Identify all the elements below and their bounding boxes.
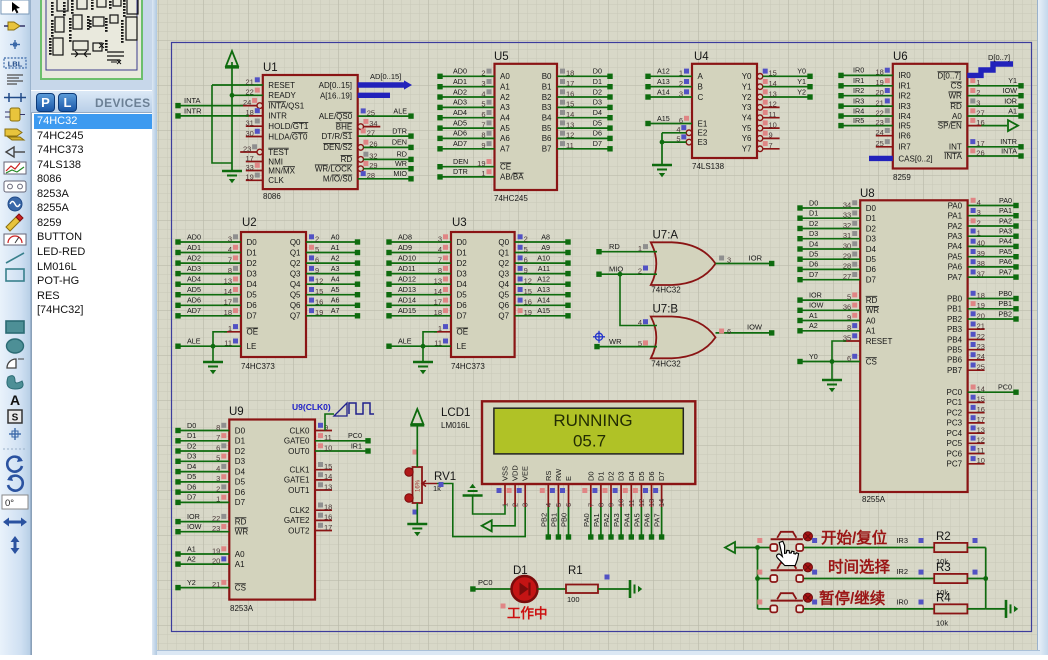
- svg-text:4: 4: [481, 89, 485, 98]
- svg-text:15: 15: [315, 287, 323, 296]
- svg-text:8: 8: [228, 266, 232, 275]
- svg-text:AD1: AD1: [187, 243, 201, 252]
- svg-text:CLK: CLK: [268, 176, 284, 185]
- wire R2 right: [967, 547, 985, 549]
- wire to U5.A0: [440, 75, 495, 77]
- svg-text:5: 5: [216, 454, 220, 463]
- svg-text:IR0: IR0: [898, 71, 911, 80]
- svg-text:0°: 0°: [5, 498, 14, 509]
- svg-text:12: 12: [566, 131, 574, 140]
- svg-text:Q5: Q5: [290, 291, 301, 300]
- wire U7:A output IOR: [716, 263, 772, 265]
- svg-text:AD3: AD3: [453, 98, 467, 107]
- svg-text:D2: D2: [866, 224, 877, 233]
- svg-text:13: 13: [566, 120, 574, 129]
- wire LCD pin to terminal PA2: [610, 507, 612, 537]
- svg-text:4: 4: [676, 125, 680, 134]
- svg-text:6: 6: [727, 327, 731, 336]
- pin 25 U6.IR7: [876, 146, 893, 148]
- svg-text:IR4: IR4: [853, 106, 864, 115]
- svg-text:A1: A1: [809, 311, 818, 320]
- ground at LCD VSS (inverted): [469, 484, 475, 488]
- svg-text:22: 22: [212, 514, 220, 523]
- svg-text:D7: D7: [809, 270, 818, 279]
- svg-text:IOW: IOW: [747, 323, 763, 332]
- svg-text:4: 4: [438, 245, 442, 254]
- svg-text:A11: A11: [538, 264, 550, 273]
- wire from U2.Q5: [306, 294, 358, 296]
- wire clock to U9.CLK0: [325, 414, 334, 431]
- svg-text:37: 37: [977, 269, 985, 278]
- svg-text:4: 4: [638, 318, 642, 327]
- svg-text:IOW: IOW: [1003, 86, 1018, 95]
- svg-text:A15: A15: [537, 306, 550, 315]
- svg-text:28: 28: [367, 171, 375, 180]
- wire to U3.D0: [389, 241, 451, 243]
- pin 23 U1.TEST: [257, 149, 263, 155]
- svg-text:Q5: Q5: [498, 291, 509, 300]
- svg-text:WR: WR: [609, 337, 622, 346]
- svg-text:D4: D4: [235, 467, 246, 476]
- svg-text:Y0: Y0: [742, 72, 752, 81]
- pin 16 U8.PC2: [968, 412, 985, 414]
- svg-text:Y6: Y6: [742, 134, 752, 143]
- wire to U4.C: [648, 96, 692, 98]
- svg-text:PC7: PC7: [947, 460, 963, 469]
- push button BTN3: [770, 605, 777, 612]
- svg-text:D7: D7: [247, 312, 258, 321]
- svg-text:D5: D5: [235, 478, 246, 487]
- svg-text:9: 9: [607, 503, 616, 507]
- svg-text:20: 20: [977, 311, 985, 320]
- svg-text:15: 15: [977, 395, 985, 404]
- svg-text:DEN/S2: DEN/S2: [323, 143, 352, 152]
- svg-text:D3: D3: [457, 269, 468, 278]
- wire to U9.CS: [178, 587, 229, 589]
- pin 23 U8.PB5: [968, 349, 985, 351]
- svg-text:A1: A1: [500, 83, 510, 92]
- svg-text:11: 11: [566, 141, 574, 150]
- svg-text:IR7: IR7: [898, 143, 911, 152]
- pin 21 U8.PB3: [968, 328, 985, 330]
- wire from U9.OUT0: [315, 450, 368, 452]
- svg-text:2: 2: [315, 234, 319, 243]
- svg-text:28: 28: [843, 262, 851, 271]
- svg-text:A1: A1: [1008, 106, 1017, 115]
- svg-text:Q4: Q4: [498, 280, 509, 289]
- wire from U8.PA1: [968, 215, 1016, 217]
- svg-text:74HC32: 74HC32: [651, 286, 681, 295]
- wire LCD pin to terminal PA0: [590, 507, 592, 537]
- wire U8.RESET to ground: [832, 341, 846, 380]
- svg-text:16: 16: [566, 89, 574, 98]
- svg-text:14: 14: [566, 110, 574, 119]
- wire to U8.D7: [800, 279, 860, 281]
- svg-text:A0: A0: [500, 72, 510, 81]
- svg-text:CAS[0..2]: CAS[0..2]: [898, 154, 932, 163]
- wire from U1.M/{IO}/{S0}: [358, 178, 411, 180]
- svg-text:PC2: PC2: [947, 408, 963, 417]
- svg-text:开始/复位: 开始/复位: [821, 528, 888, 547]
- wire from U1.{DEN}/{S2}: [363, 146, 411, 148]
- svg-text:D0: D0: [866, 204, 877, 213]
- svg-text:ALE: ALE: [398, 337, 412, 346]
- svg-text:WR: WR: [235, 528, 249, 537]
- svg-text:8253A: 8253A: [230, 604, 254, 613]
- wire from U8.PB0: [968, 298, 1016, 300]
- svg-text:AD7: AD7: [187, 306, 201, 315]
- svg-text:PB1: PB1: [549, 513, 558, 527]
- svg-text:4: 4: [216, 464, 220, 473]
- svg-text:AD13: AD13: [398, 285, 416, 294]
- overview minimap panel: [31, 0, 155, 90]
- svg-text:D6: D6: [866, 265, 877, 274]
- ground near U8: [822, 379, 842, 382]
- svg-text:AD4: AD4: [453, 108, 467, 117]
- svg-text:PC1: PC1: [947, 398, 963, 407]
- svg-text:PA7: PA7: [999, 267, 1012, 276]
- device list: [31, 113, 152, 655]
- svg-text:PA3: PA3: [948, 232, 963, 241]
- svg-text:AD9: AD9: [398, 243, 412, 252]
- wire to U2.D2: [178, 262, 241, 264]
- svg-text:22: 22: [875, 108, 883, 117]
- svg-text:D3: D3: [247, 269, 258, 278]
- wire BTN3 to resistor: [804, 608, 934, 610]
- svg-text:9: 9: [524, 266, 528, 275]
- wire to U4.E1: [648, 123, 692, 125]
- svg-text:RESET: RESET: [866, 337, 893, 346]
- svg-text:9: 9: [847, 313, 851, 322]
- wire U4 enable rail: [661, 133, 663, 165]
- wire from U6.RD: [967, 105, 1021, 107]
- svg-text:74HC32: 74HC32: [651, 360, 681, 369]
- wire to U3.D3: [389, 273, 451, 275]
- svg-text:Q0: Q0: [290, 238, 301, 247]
- svg-text:R3: R3: [936, 562, 951, 574]
- wire to U9.WR: [178, 531, 229, 533]
- svg-text:5: 5: [847, 292, 851, 301]
- svg-text:A2: A2: [500, 93, 510, 102]
- svg-text:U9: U9: [229, 406, 244, 418]
- svg-text:A12: A12: [657, 67, 670, 76]
- svg-text:1: 1: [679, 69, 683, 78]
- svg-text:INTA: INTA: [944, 152, 962, 161]
- svg-text:CS: CS: [866, 357, 877, 366]
- svg-text:PA6: PA6: [948, 263, 963, 272]
- resistor output rail: [985, 548, 987, 609]
- wire from U8.PA7: [968, 276, 1016, 278]
- svg-text:BHE: BHE: [336, 122, 352, 131]
- svg-text:17: 17: [977, 415, 985, 424]
- bus D[0..7] from U6: [967, 64, 1013, 75]
- svg-text:16: 16: [524, 298, 532, 307]
- svg-text:A0: A0: [235, 550, 245, 559]
- pin 19 U1.CLK: [246, 179, 263, 181]
- svg-text:26: 26: [976, 148, 984, 157]
- svg-text:Y3: Y3: [742, 103, 752, 112]
- wire to U6.IR3: [841, 105, 893, 107]
- svg-text:5: 5: [524, 245, 528, 254]
- svg-text:PC0: PC0: [998, 383, 1012, 392]
- svg-text:6: 6: [216, 443, 220, 452]
- power terminal right at U6.SP/EN: [1008, 120, 1018, 131]
- wire from U8.PA5: [968, 256, 1016, 258]
- svg-text:PA4: PA4: [622, 513, 631, 527]
- wire LCD.VSS to ground: [473, 495, 505, 514]
- svg-text:A6: A6: [331, 296, 340, 305]
- svg-text:D7: D7: [457, 312, 468, 321]
- svg-text:18: 18: [875, 68, 883, 77]
- svg-text:D0: D0: [809, 198, 818, 207]
- IC U3 (74HC373) body: [451, 232, 515, 357]
- svg-text:9: 9: [769, 131, 773, 140]
- svg-text:16%: 16%: [416, 479, 422, 492]
- pin 17 U1.NMI: [246, 161, 263, 163]
- svg-text:ALE/QS0: ALE/QS0: [319, 112, 353, 121]
- wire from U3.Q1: [515, 252, 568, 254]
- pin 10 U4.Y5: [757, 125, 763, 131]
- svg-text:PA1: PA1: [999, 206, 1012, 215]
- svg-text:SP/EN: SP/EN: [938, 121, 962, 130]
- pin 26 U1.{DEN}/{S2}: [358, 145, 364, 151]
- svg-text:U9(CLK0): U9(CLK0): [292, 402, 331, 412]
- svg-text:19: 19: [477, 159, 485, 168]
- wire RV1 top to power: [416, 426, 418, 467]
- svg-text:PB7: PB7: [947, 366, 963, 375]
- svg-text:S: S: [12, 413, 19, 424]
- wire rail to BTN1: [758, 547, 771, 549]
- svg-text:3: 3: [977, 208, 981, 217]
- svg-text:15: 15: [524, 287, 532, 296]
- svg-text:PB1: PB1: [998, 299, 1012, 308]
- svg-text:30: 30: [245, 129, 253, 138]
- svg-text:Q4: Q4: [290, 280, 301, 289]
- svg-text:29: 29: [843, 252, 851, 261]
- IC U6 (8259) body: [893, 64, 968, 169]
- pin 22 U8.PB4: [968, 339, 985, 341]
- svg-text:10: 10: [769, 120, 777, 129]
- wire to U8.CS: [800, 361, 860, 363]
- wire from U5.B4: [557, 117, 610, 119]
- svg-text:D6: D6: [187, 482, 196, 491]
- svg-text:A7: A7: [500, 145, 510, 154]
- wire to U9.D0: [178, 430, 229, 432]
- svg-text:IOW: IOW: [187, 522, 202, 531]
- svg-text:D2: D2: [247, 259, 258, 268]
- svg-text:D6: D6: [809, 260, 818, 269]
- svg-text:74LS138: 74LS138: [692, 162, 725, 171]
- svg-text:AD5: AD5: [453, 118, 467, 127]
- svg-text:23: 23: [875, 118, 883, 127]
- svg-text:33: 33: [245, 163, 253, 172]
- svg-text:D1: D1: [866, 214, 877, 223]
- svg-text:15: 15: [769, 69, 777, 78]
- svg-text:D3: D3: [593, 98, 602, 107]
- svg-text:PC0: PC0: [947, 388, 963, 397]
- svg-text:WR: WR: [395, 159, 407, 168]
- pin 25 U8.PB7: [968, 369, 985, 371]
- wire to U9.D4: [178, 471, 229, 473]
- svg-text:Q7: Q7: [290, 312, 301, 321]
- svg-text:A2: A2: [187, 554, 196, 563]
- wire LCD pin to terminal PA5: [640, 507, 642, 537]
- svg-text:IR4: IR4: [898, 112, 911, 121]
- svg-text:8: 8: [481, 131, 485, 140]
- wire from U8.PA2: [968, 225, 1016, 227]
- svg-text:D5: D5: [187, 472, 196, 481]
- svg-text:B: B: [698, 83, 703, 92]
- svg-text:INTR: INTR: [184, 106, 202, 115]
- wire from U3.Q6: [515, 304, 568, 306]
- svg-text:D4: D4: [627, 471, 636, 481]
- svg-text:32: 32: [369, 152, 377, 161]
- wire to U4.A: [648, 75, 692, 77]
- svg-text:AD[0..15]: AD[0..15]: [370, 72, 401, 81]
- wire from U1.ALE/{QS0}: [358, 115, 411, 117]
- wire U2.OE to ground rail: [213, 332, 227, 362]
- wire LCD pin to terminal PB0: [568, 507, 570, 537]
- svg-text:13: 13: [324, 482, 332, 491]
- svg-text:3: 3: [679, 89, 683, 98]
- svg-text:6: 6: [315, 255, 319, 264]
- svg-text:19: 19: [977, 301, 985, 310]
- pin 29 U1.{WR}/{LOCK}: [358, 166, 364, 172]
- svg-text:INTA: INTA: [1001, 146, 1017, 155]
- svg-text:LM016L: LM016L: [441, 421, 470, 430]
- bus A[16..19] from U1: [358, 93, 390, 98]
- svg-text:5: 5: [676, 134, 680, 143]
- svg-text:17: 17: [324, 523, 332, 532]
- svg-text:3: 3: [216, 474, 220, 483]
- svg-text:MIO: MIO: [393, 169, 407, 178]
- power terminal left at LCD VDD: [482, 520, 492, 531]
- wire from U6.INTA: [967, 155, 1021, 157]
- wire to U8.D5: [800, 258, 860, 260]
- svg-text:AD4: AD4: [187, 275, 201, 284]
- wire MIO branch to U7:B: [620, 274, 657, 325]
- wire to U5.AB/{BA}: [440, 176, 495, 178]
- svg-text:A4: A4: [500, 114, 510, 123]
- svg-text:16: 16: [977, 405, 985, 414]
- wire from U6.WR: [967, 95, 1021, 97]
- svg-text:A1: A1: [235, 560, 245, 569]
- pin 9 U9.CLK0: [315, 430, 332, 432]
- svg-text:时间选择: 时间选择: [828, 557, 891, 576]
- pin 31 U1.HOLD/{GT1}: [246, 125, 263, 127]
- svg-text:19: 19: [212, 546, 220, 555]
- svg-text:2: 2: [679, 79, 683, 88]
- wire LCD pin to terminal PB1: [557, 507, 559, 537]
- svg-text:AD2: AD2: [453, 87, 467, 96]
- wire power to ground rail at U1: [231, 62, 233, 171]
- svg-text:2: 2: [638, 267, 642, 276]
- svg-text:DTR: DTR: [392, 126, 407, 135]
- svg-text:R4: R4: [936, 592, 951, 604]
- svg-text:17: 17: [224, 298, 232, 307]
- svg-text:36: 36: [843, 303, 851, 312]
- svg-text:DEN: DEN: [453, 157, 468, 166]
- wire to U4.B: [648, 86, 692, 88]
- svg-text:OE: OE: [457, 328, 469, 337]
- svg-text:ALE: ALE: [393, 106, 407, 115]
- svg-text:7: 7: [481, 120, 485, 129]
- wire to U9.D5: [178, 481, 229, 483]
- svg-text:PB2: PB2: [539, 513, 548, 527]
- svg-text:25: 25: [875, 139, 883, 148]
- svg-text:D5: D5: [809, 250, 818, 259]
- svg-text:34: 34: [369, 119, 377, 128]
- svg-text:D2: D2: [457, 259, 468, 268]
- svg-text:INTA: INTA: [184, 96, 201, 105]
- svg-text:3: 3: [727, 255, 731, 264]
- wire from U2.Q3: [306, 273, 358, 275]
- wire from U8.PA6: [968, 266, 1016, 268]
- origin marker: [593, 331, 605, 343]
- svg-text:100: 100: [567, 595, 580, 604]
- svg-text:17: 17: [434, 298, 442, 307]
- IC U9 (8253A) body: [229, 420, 315, 600]
- svg-text:5: 5: [481, 100, 485, 109]
- IC U4 (74LS138) body: [692, 64, 757, 158]
- wire from U3.Q4: [515, 283, 568, 285]
- wire terminal to button rail: [735, 547, 758, 549]
- svg-text:18: 18: [566, 69, 574, 78]
- svg-text:19: 19: [875, 78, 883, 87]
- pin 1 U3.OE: [434, 331, 451, 333]
- wire to U2.D5: [178, 294, 241, 296]
- pin 9 U4.Y6: [757, 136, 763, 142]
- svg-text:CS: CS: [951, 82, 962, 91]
- svg-text:15: 15: [324, 462, 332, 471]
- wire from U9.GATE0: [315, 440, 368, 442]
- wire LCD pin to terminal PA4: [630, 507, 632, 537]
- svg-text:3: 3: [228, 234, 232, 243]
- wire to U5.A3: [440, 106, 495, 108]
- wire from U3.Q3: [515, 273, 568, 275]
- power symbol near U1: [226, 51, 238, 66]
- svg-text:D1: D1: [187, 431, 196, 440]
- wire to U2.D4: [178, 283, 241, 285]
- svg-text:Q6: Q6: [290, 301, 301, 310]
- svg-text:11: 11: [324, 433, 332, 442]
- svg-text:2: 2: [216, 484, 220, 493]
- wire from U8.PA4: [968, 245, 1016, 247]
- svg-text:3: 3: [481, 79, 485, 88]
- svg-text:Y4: Y4: [742, 114, 752, 123]
- svg-text:3: 3: [438, 234, 442, 243]
- pin 14 U4.Y1: [757, 84, 763, 90]
- wire from U6.A0: [967, 115, 1021, 117]
- svg-text:PB2: PB2: [947, 315, 963, 324]
- svg-text:D3: D3: [866, 235, 877, 244]
- wire to U2.D3: [178, 273, 241, 275]
- svg-text:6: 6: [679, 116, 683, 125]
- svg-text:14: 14: [434, 287, 442, 296]
- svg-text:D1: D1: [457, 248, 468, 257]
- svg-text:31: 31: [843, 231, 851, 240]
- svg-text:6: 6: [524, 255, 528, 264]
- svg-text:U6: U6: [893, 51, 908, 63]
- svg-text:IR5: IR5: [853, 116, 864, 125]
- svg-text:RW: RW: [554, 468, 563, 481]
- wire LCD.VEE to RV1 wiper: [437, 484, 525, 537]
- svg-text:A8: A8: [541, 232, 550, 241]
- pin 32 U1.RD: [358, 157, 364, 163]
- svg-text:D1: D1: [593, 77, 602, 86]
- svg-text:A9: A9: [541, 243, 550, 252]
- svg-text:1: 1: [977, 229, 981, 238]
